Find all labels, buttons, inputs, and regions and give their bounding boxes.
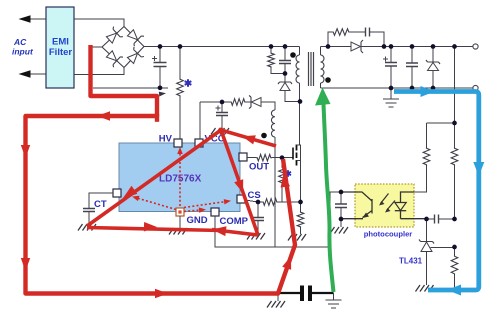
ground CT	[78, 224, 96, 231]
red dotted arrow GND to COMP	[184, 210, 200, 212]
blue arrow left	[447, 285, 461, 296]
output capacitor C-out2	[411, 47, 413, 89]
LED side	[401, 192, 415, 203]
light arrows	[381, 194, 396, 211]
resistor R-HV startup	[179, 47, 181, 79]
red line VCC to CT ground	[87, 130, 221, 226]
red arrow down 1	[21, 145, 30, 158]
output terminal -	[473, 85, 478, 90]
transformer core	[309, 52, 314, 86]
wire AC input top	[30, 18, 46, 20]
TL431 U2	[426, 219, 428, 242]
capacitor C-CT	[83, 209, 95, 212]
phase dot primary	[290, 52, 296, 58]
photocoupler box	[355, 184, 414, 227]
capacitor C-fb series	[427, 218, 435, 220]
resistor R-fb upper (to LED)	[426, 123, 428, 147]
snubber resistor R-sn	[270, 47, 272, 53]
resistor R-sense	[300, 202, 302, 211]
wire EMI bottom output to bridge bottom vertex	[74, 68, 124, 75]
red junction blob at VCC	[218, 128, 224, 134]
bridge diode D1 (left-top edge)	[105, 27, 123, 45]
bridge diode D2 (top-right edge)	[126, 28, 144, 46]
red dotted arrow GND to HV	[179, 153, 181, 206]
snubber RC secondary	[328, 32, 332, 47]
pin COMP	[211, 208, 219, 216]
pin GND	[176, 208, 184, 216]
svg-text:AC: AC	[13, 37, 27, 47]
VCC capacitor C-vcc (electrolytic)	[221, 102, 223, 112]
phase dot secondary	[325, 77, 331, 83]
red line VCC to CS ground	[221, 130, 258, 235]
phase dot aux	[261, 133, 267, 139]
svg-text:EMI: EMI	[52, 37, 69, 48]
capacitor C-cs	[257, 202, 259, 217]
red dotted arrow GND to CT	[137, 198, 176, 210]
resistor R-div upper	[454, 123, 456, 147]
wire primary bottom to MOSFET drain	[299, 83, 301, 145]
ground photocoupler emitter	[330, 227, 348, 234]
wire to Y-capacitor	[278, 292, 300, 294]
pin VCC	[195, 139, 203, 147]
wire CT pin to timing capacitor	[89, 193, 113, 208]
green arrowhead	[315, 88, 331, 106]
bulk capacitor C1 (electrolytic)	[159, 47, 161, 88]
transformer secondary winding	[320, 47, 322, 56]
red arrow right bottom	[155, 289, 168, 298]
wire MOSFET source to CS node	[300, 161, 302, 203]
wire CS pin	[245, 200, 262, 202]
wire bridge left vertex stub (B- start, under red)	[90, 46, 102, 48]
arrow AC top (left)	[19, 15, 31, 22]
EMI filter block	[46, 7, 74, 88]
red dotted arrow GND to CS	[184, 202, 226, 208]
resistor R-div lower	[454, 247, 456, 255]
snubber capacitor C-sn	[284, 47, 286, 61]
red line CS ground to GND ground	[212, 230, 258, 236]
wire EMI top output to bridge top vertex	[74, 19, 124, 27]
red arrow on loop (left, y=117)	[97, 111, 110, 121]
red current loop main	[26, 45, 296, 294]
svg-text:COMP: COMP	[220, 216, 249, 227]
asterisk note 2	[285, 170, 291, 177]
output terminal +	[473, 44, 478, 49]
wire feedback tap	[427, 47, 455, 124]
wire B- rail	[93, 87, 168, 89]
ground GND pin	[169, 228, 187, 235]
arrow AC bottom (left)	[19, 70, 31, 77]
capacitor C-Y (primary-secondary)	[302, 286, 310, 302]
wire GND pin to ground	[179, 216, 181, 228]
svg-text:photocoupler: photocoupler	[364, 230, 413, 239]
ground secondary bottom (earth)	[333, 293, 335, 300]
output capacitor C-out1 (electrolytic)	[390, 47, 392, 89]
svg-text:TL431: TL431	[399, 257, 423, 266]
capacitor across phototransistor	[340, 192, 342, 204]
snubber diode D-sn	[284, 74, 286, 83]
blue current path	[394, 92, 479, 291]
red line ground bus left	[87, 228, 222, 231]
op: controller IC U1 LD7576X body	[119, 143, 240, 212]
pin OUT	[239, 153, 247, 161]
red line aux to VCC	[221, 130, 276, 146]
red origin mark in GND pin	[178, 210, 181, 213]
wire TL431 ref	[431, 246, 455, 248]
resistor R-cs filter	[262, 199, 278, 206]
wire AC input bottom	[30, 73, 46, 75]
svg-text:Filter: Filter	[49, 47, 73, 58]
wire secondary bottom rail	[321, 87, 473, 89]
red arrow up to gate	[281, 174, 290, 188]
red arrow up diagonal	[282, 256, 291, 270]
wire secondary top rail	[321, 46, 352, 48]
small dark tick arrow at bridge corner	[159, 92, 166, 97]
output rectifier diode D-out	[351, 42, 361, 51]
wire OUT pin	[247, 157, 256, 159]
transistor Q1 MOSFET	[292, 148, 294, 160]
aux rectifier diode D-aux	[252, 98, 262, 107]
red arrow down 2	[21, 258, 30, 271]
phototransistor side	[341, 192, 372, 218]
svg-text:HV: HV	[159, 134, 173, 145]
blue arrow down	[473, 162, 484, 176]
svg-text:GND: GND	[187, 215, 208, 226]
svg-text:CT: CT	[94, 199, 107, 210]
wire aux winding bottom to primary ground bus	[274, 137, 276, 247]
resistor R-vcc	[230, 99, 246, 106]
red corner tail	[155, 114, 159, 122]
bridge diode D3 (left-bottom edge)	[105, 49, 123, 67]
pin CS	[237, 195, 245, 203]
pin CT	[113, 189, 121, 197]
aux winding	[271, 110, 275, 137]
resistor R-gate	[256, 154, 272, 161]
wire COMP pin to photocoupler collector	[215, 192, 341, 247]
ground CS cap	[247, 233, 265, 240]
ground secondary (earth)	[390, 88, 392, 99]
svg-text:input: input	[12, 47, 34, 57]
transformer primary winding	[299, 47, 301, 56]
pin HV	[174, 139, 182, 147]
ground TL431	[416, 285, 434, 292]
svg-text:OUT: OUT	[249, 162, 269, 173]
svg-text:CS: CS	[248, 190, 261, 201]
resistor R-gs pulldown	[281, 158, 283, 166]
asterisk note 1	[185, 79, 192, 87]
zener diode Z-out	[432, 47, 434, 63]
green current path	[323, 99, 333, 292]
ground primary bottom	[277, 293, 279, 301]
ground sense resistor	[288, 234, 306, 241]
wire B+ rail	[144, 46, 300, 48]
blue arrow right	[421, 86, 435, 97]
bridge rectifier diamond	[102, 27, 144, 68]
bridge diode D4 (bottom-right edge)	[126, 47, 144, 65]
ground VCC cap	[211, 128, 229, 135]
